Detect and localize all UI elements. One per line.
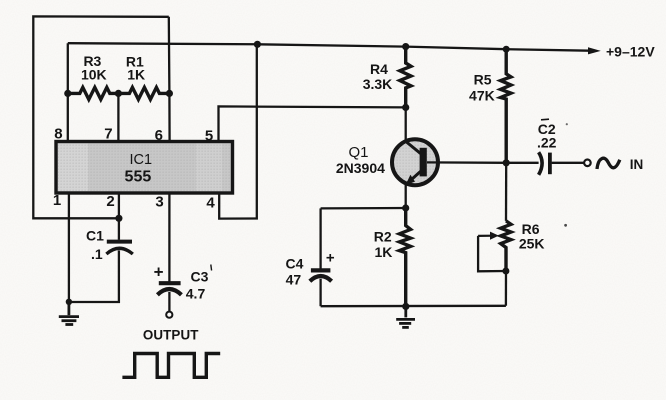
label Q1 [348, 144, 368, 161]
svg-text:47: 47 [286, 271, 302, 287]
svg-text:4.7: 4.7 [186, 285, 206, 301]
wire pin 7 column (x=118.4) [117, 93, 119, 141]
IC1 555 body [56, 142, 233, 194]
scan speck above C2 [566, 123, 568, 125]
label 3.3K (R4 value) [363, 76, 393, 92]
transistor Q1 collector diagonal [405, 141, 422, 155]
label 10K [81, 66, 107, 82]
svg-text:R5: R5 [474, 71, 492, 87]
svg-text:6: 6 [155, 127, 163, 144]
label C1 [86, 228, 104, 244]
capacitor C4 (top plate) [311, 268, 331, 272]
svg-text:Q1: Q1 [348, 144, 368, 161]
label + (C4 polarity) [326, 250, 335, 267]
svg-text:C3: C3 [191, 268, 209, 284]
svg-text:1K: 1K [127, 66, 145, 82]
capacitor C3 (curved bottom plate) [157, 289, 181, 295]
wire pin 2 column to C1 [118, 193, 120, 240]
capacitor C2 (curved left plate) [539, 152, 543, 175]
wire pin 6 column (x=170) [168, 17, 171, 142]
pin number 6 [155, 127, 163, 144]
svg-text:4: 4 [206, 195, 215, 212]
label +9-12V [606, 44, 655, 60]
wire Q1 base to R5/R6 junction [427, 161, 506, 164]
node dot pin8/R3 [64, 90, 71, 97]
wire outer loop: pin 6 top to pin 2 (left big rectangle) [33, 16, 169, 218]
R6 wiper arrow line [478, 235, 494, 237]
pin number 2 [106, 193, 114, 210]
svg-text:3.3K: 3.3K [363, 76, 393, 92]
node dot pin2/outer loop [115, 215, 122, 222]
capacitor C1 (top plate) [107, 240, 132, 244]
node dot ground junction left [66, 299, 72, 305]
node dot rail/R5 [503, 46, 510, 53]
node dot pin7 R3/R1 [115, 90, 122, 97]
transistor Q1 emitter arrowhead [405, 175, 415, 185]
capacitor C2 (straight right plate) [548, 153, 552, 175]
capacitor C1 (curved bottom plate) [106, 248, 132, 254]
wire emitter node to C4 top [321, 207, 406, 210]
label C3 [191, 268, 209, 284]
svg-text:8: 8 [54, 126, 62, 143]
ground symbol center (under R2) [396, 306, 415, 327]
pin number 5 [205, 128, 213, 145]
resistor R6 potentiometer (vertical zigzag x=506) [501, 221, 511, 271]
wire R5 junction down to R6 [505, 163, 508, 221]
wire C2 to IN terminal [552, 162, 584, 164]
svg-text:+: + [154, 263, 164, 282]
label 1K (R2 value) [374, 244, 392, 260]
svg-text:3: 3 [155, 193, 163, 210]
scan speck right of R6 [564, 224, 567, 227]
svg-text:.1: .1 [91, 246, 103, 262]
pin number 4 [206, 195, 215, 212]
node dot rail/pin4 column [254, 41, 261, 48]
svg-text:555: 555 [125, 168, 152, 185]
output terminal (open circle) [166, 312, 172, 318]
svg-text:R2: R2 [374, 229, 392, 245]
svg-text:1K: 1K [374, 244, 392, 260]
resistor R3 (zigzag 68-119, y=93.4) [68, 87, 119, 99]
svg-text:OUTPUT: OUTPUT [143, 328, 199, 343]
node dot R6 bottom / wiper [502, 268, 509, 275]
svg-text:2N3904: 2N3904 [336, 160, 385, 176]
transistor Q1 emitter diagonal with arrow [406, 171, 422, 185]
resistor R2 (vertical zigzag x=405.7) [399, 208, 410, 306]
label R1 [126, 53, 144, 69]
label 2N3904 [336, 160, 385, 176]
wire pin 8 column (x=67.8) [67, 43, 69, 141]
capacitor C3 (top plate) [159, 281, 181, 285]
label R2 [374, 229, 392, 245]
capacitor C4 (curved bottom plate) [310, 276, 332, 281]
wire junction to C2 [506, 162, 538, 164]
svg-text:C4: C4 [286, 256, 304, 272]
transistor Q1 base bar [420, 148, 427, 177]
wire Q1 collector (x=405.7 from dot to circle) [405, 107, 407, 141]
label R3 [83, 53, 101, 69]
wire Q1 emitter down to R2 node [405, 185, 407, 208]
wire C4 bottom to ground rail [319, 279, 321, 306]
label 555 [125, 168, 152, 185]
wire C4 left column top [319, 208, 321, 268]
wire R6 bottom to ground rail [505, 271, 507, 306]
label C2 [538, 121, 556, 137]
node dot R4 bottom / pin5 wire / Q1 collector [402, 104, 409, 111]
svg-text:7: 7 [104, 126, 112, 143]
node dot bottom rail / R2 / ground [402, 303, 409, 310]
wire bottom ground rail (C4 to R6) [321, 305, 506, 308]
svg-text:25K: 25K [519, 236, 545, 252]
svg-text:2: 2 [106, 193, 114, 210]
label 25K (R6 value) [519, 236, 545, 252]
label R5 [474, 71, 492, 87]
label C4 [286, 256, 304, 272]
label 47 (C4 value) [286, 271, 302, 287]
label IN [630, 157, 644, 172]
label 4.7 (C3 value) [186, 285, 206, 301]
pin number 1 [53, 192, 61, 209]
wire pin 5 column and horizontal to R4 bottom [219, 106, 406, 141]
label 1K (R1 value) [127, 66, 145, 82]
transistor Q1 body (circle) [392, 139, 438, 185]
resistor R5 (vertical zigzag x=506.2) [501, 49, 511, 163]
R6 wiper arrowhead [490, 232, 499, 240]
label OUTPUT [143, 328, 199, 343]
svg-text:C1: C1 [86, 228, 104, 244]
wire C3 to output terminal [168, 292, 170, 312]
pin number 8 [54, 126, 62, 143]
label .1 (C1 value) [91, 246, 103, 262]
resistor R4 (vertical zigzag x=405.7) [400, 47, 411, 108]
R6 wiper return wire [478, 236, 506, 271]
label 47K (R5 value) [469, 87, 495, 103]
svg-text:IN: IN [630, 157, 644, 172]
svg-text:47K: 47K [469, 87, 495, 103]
wire C1 bottom to ground dot [69, 251, 119, 303]
label IC1 [130, 152, 153, 168]
resistor R1 (zigzag 119-170, y=93.4) [118, 87, 169, 99]
svg-text:.22: .22 [537, 135, 557, 151]
label R4 [370, 61, 388, 77]
square wave symbol [122, 354, 220, 378]
svg-text:+9–12V: +9–12V [606, 44, 655, 60]
svg-text:1: 1 [53, 192, 61, 209]
label .22 (C2 value) [537, 135, 557, 151]
svg-text:IC1: IC1 [130, 152, 153, 168]
IN terminal (open circle) [584, 160, 591, 167]
svg-text:R4: R4 [370, 61, 388, 77]
ground symbol left (under pin 1) [59, 302, 79, 325]
svg-text:+: + [326, 250, 335, 267]
node dot rail/R4 [402, 43, 409, 50]
supply arrowhead [588, 47, 601, 54]
pin number 3 [155, 193, 163, 210]
scan mark above C2 [541, 118, 549, 121]
wire pin 1 column down to ground [68, 193, 70, 301]
sine symbol (AC input) [597, 158, 620, 169]
wire +V rail to arrow [68, 43, 590, 51]
svg-text:R6: R6 [522, 221, 540, 237]
scan tick right of C3 [210, 265, 213, 271]
pin number 7 [104, 126, 112, 143]
wire pin 3 column to C3 [168, 193, 170, 281]
node dot pin6/R1 [166, 90, 173, 97]
svg-text:5: 5 [205, 128, 213, 145]
label + (C3 polarity) [154, 263, 164, 282]
svg-text:10K: 10K [81, 66, 107, 82]
wire pin 4 column to +V column [219, 44, 257, 218]
label R6 [522, 221, 540, 237]
node dot emitter/R2/C4 [402, 204, 409, 211]
node dot base/R5/R6/C2 [503, 159, 510, 166]
